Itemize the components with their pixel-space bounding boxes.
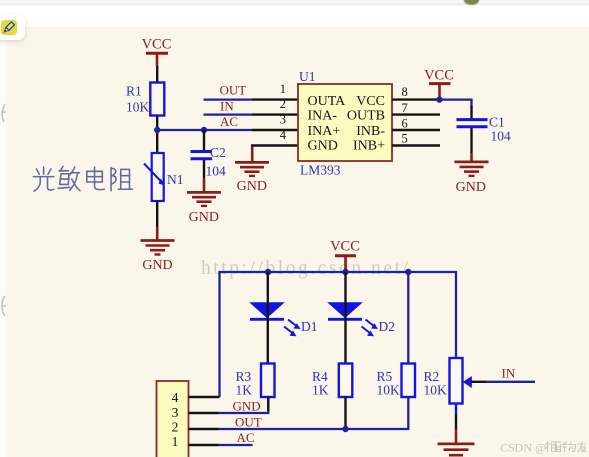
svg-text:D2: D2	[379, 319, 396, 334]
svg-text:CSDN @: CSDN @	[500, 441, 546, 455]
wire IN net	[204, 113, 253, 115]
svg-text:1: 1	[280, 82, 286, 96]
pin 2 wire	[252, 113, 298, 115]
敏	[58, 166, 80, 190]
svg-text:10K: 10K	[377, 383, 401, 398]
connector header body	[157, 381, 189, 457]
potentiometer R2	[424, 358, 472, 404]
ground GND (R2 bottom)	[438, 429, 475, 455]
wire R2 wiper to IN	[471, 381, 487, 383]
pencil glyph	[1, 20, 17, 35]
left gutter glyph fragments	[0, 100, 8, 320]
svg-text:3: 3	[280, 113, 286, 127]
svg-text:VCC: VCC	[330, 239, 360, 255]
svg-text:OUT: OUT	[235, 415, 262, 430]
edit-icon card	[0, 15, 25, 40]
wire C1 bottom	[470, 128, 472, 153]
svg-text:6: 6	[402, 117, 408, 131]
svg-text:OUTA: OUTA	[308, 94, 347, 109]
wire C2 top (from AC junction)	[203, 130, 205, 150]
svg-text:OUTB: OUTB	[347, 109, 385, 124]
ground GND (left column)	[141, 227, 175, 273]
node junction C2	[201, 127, 207, 133]
svg-text:AC: AC	[237, 430, 255, 445]
wire R4 bottom	[344, 397, 346, 429]
友	[578, 442, 587, 453]
svg-text:VCC: VCC	[142, 37, 172, 53]
svg-text:GND: GND	[237, 179, 267, 194]
wire AC net (navy)	[157, 129, 252, 131]
svg-text:GND: GND	[456, 180, 486, 195]
wire AC net stub	[219, 444, 253, 446]
wire C1 top	[470, 106, 472, 119]
svg-text:LM393: LM393	[300, 163, 341, 178]
svg-text:3: 3	[172, 405, 179, 420]
wire OUT net	[204, 98, 253, 100]
svg-text:VCC: VCC	[356, 94, 385, 109]
capacitor C1	[457, 115, 512, 144]
阻	[111, 167, 132, 190]
node junction D2/VCC	[342, 269, 348, 275]
svg-text:C1: C1	[489, 115, 505, 130]
svg-text:VCC: VCC	[424, 68, 454, 84]
svg-text:1K: 1K	[236, 383, 253, 398]
ground GND (pin 4)	[235, 147, 269, 195]
node junction pin8/VCC	[436, 96, 442, 102]
resistor R4	[312, 364, 352, 398]
svg-text:1K: 1K	[312, 383, 329, 398]
node junction D1	[265, 269, 271, 275]
svg-text:GND: GND	[189, 210, 219, 225]
pin 7 wire	[392, 113, 440, 115]
svg-text:INB+: INB+	[353, 138, 385, 153]
svg-text:4: 4	[280, 128, 287, 142]
LED D2	[328, 303, 395, 336]
svg-text:IN: IN	[220, 99, 234, 114]
photoresistor N1	[144, 153, 184, 201]
svg-text:OUT: OUT	[220, 83, 247, 98]
power port VCC (bottom rail)	[330, 239, 360, 273]
svg-text:C2: C2	[210, 145, 226, 160]
电	[87, 167, 104, 190]
wire top rail	[220, 272, 457, 397]
csdn watermark	[201, 258, 411, 280]
pin 4 wire	[252, 146, 298, 149]
相	[545, 441, 556, 452]
svg-text:2: 2	[280, 97, 286, 111]
connector pin 1 wire	[189, 444, 219, 446]
pin 1 wire	[252, 98, 298, 100]
svg-text:GND: GND	[142, 258, 172, 273]
wire R1 bottom to N1	[156, 116, 158, 154]
svg-text:2: 2	[172, 420, 179, 435]
svg-text:N1: N1	[167, 172, 184, 187]
resistor R5	[377, 364, 416, 398]
node junction R5	[405, 269, 411, 275]
CSDN credit	[498, 438, 589, 456]
svg-text:INB-: INB-	[356, 124, 385, 139]
resistor R1	[126, 83, 164, 116]
svg-text:GND: GND	[308, 138, 338, 153]
node junction R4/OUT	[342, 426, 348, 432]
connector pin 3 wire	[189, 412, 219, 414]
wire N1 bottom	[156, 201, 158, 227]
connector pin 2 wire	[189, 428, 219, 430]
svg-text:8: 8	[402, 85, 408, 99]
svg-text:GND: GND	[233, 399, 261, 414]
svg-text:1: 1	[172, 434, 179, 449]
svg-text:10K: 10K	[126, 100, 150, 115]
svg-text:7: 7	[402, 101, 408, 115]
connector pin 4 wire	[189, 396, 220, 398]
olive avatar bottom arc	[464, 0, 479, 5]
svg-text:104: 104	[206, 164, 227, 179]
power port VCC (R1 top)	[142, 37, 172, 67]
光敏电阻 label (drawn glyphs)	[31, 165, 136, 194]
LED D1	[250, 303, 318, 336]
svg-text:104: 104	[491, 129, 512, 144]
svg-text:INA+: INA+	[308, 124, 341, 139]
pin 8 wire	[392, 98, 440, 100]
wire rail to R5	[407, 272, 409, 364]
光	[33, 167, 53, 191]
pin 5 wire	[392, 144, 440, 146]
醉	[556, 442, 567, 453]
power port VCC (IC right)	[424, 68, 454, 100]
wire VCC to R1	[156, 66, 158, 82]
svg-text:U1: U1	[299, 69, 316, 84]
svg-text:INA-: INA-	[308, 109, 338, 124]
wire OUT net	[219, 397, 409, 429]
ground GND (below C1)	[455, 153, 489, 195]
wire C2 bottom	[203, 160, 205, 178]
resistor R3	[236, 364, 275, 398]
node junction R1/AC	[154, 127, 160, 133]
wire GND net to R3	[219, 397, 269, 413]
ground GND (below C2)	[187, 178, 221, 225]
svg-text:IN: IN	[502, 366, 516, 381]
wire pin8 to C1	[440, 100, 472, 108]
为	[568, 442, 576, 452]
svg-text:4: 4	[172, 390, 179, 405]
svg-text:10K: 10K	[424, 383, 448, 398]
top white band	[0, 0, 589, 27]
pin 6 wire	[392, 129, 440, 131]
wire rail through D2 to R4	[344, 272, 346, 364]
svg-text:5: 5	[402, 132, 408, 146]
pin 3 wire	[252, 129, 298, 131]
svg-text:D1: D1	[301, 319, 318, 334]
wire R2 bottom	[455, 404, 457, 415]
wire rail through D1 to R3	[267, 272, 269, 364]
left white gutter	[0, 27, 6, 457]
op-amp U1 LM393 body	[298, 69, 392, 178]
svg-text:R1: R1	[126, 84, 142, 99]
capacitor C2	[191, 145, 227, 179]
svg-text:AC: AC	[220, 114, 238, 129]
